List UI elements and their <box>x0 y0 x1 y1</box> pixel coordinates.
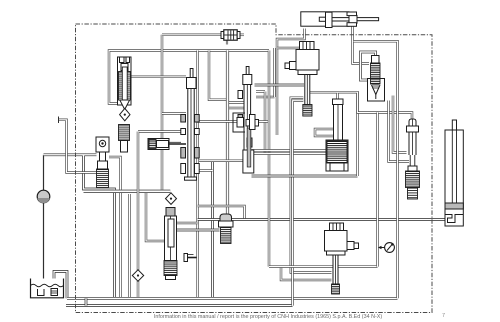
wire v393 drop <box>393 96 407 153</box>
wire bus branch v135 <box>128 194 131 298</box>
wire spool1 head drop <box>209 51 228 100</box>
wire relief-valve supply loop <box>109 51 269 104</box>
pilot relief valve RV1 <box>118 57 132 110</box>
damper spring element <box>119 125 130 153</box>
check diamond D1 <box>120 108 130 120</box>
svg-text:7: 7 <box>442 313 445 319</box>
cartridge valve CART2 <box>406 155 420 199</box>
wire long vertical x198 <box>196 51 199 299</box>
solenoid valve SOL1 <box>285 42 319 117</box>
wire accumulator line <box>43 155 45 190</box>
wire gauge branch <box>376 113 379 267</box>
wire v274 drop <box>273 48 276 97</box>
pilot accumulator tube <box>407 119 419 155</box>
oil reservoir tank <box>31 279 64 298</box>
wire below diamond <box>137 281 140 299</box>
wire cross to v269 <box>259 120 270 123</box>
wire main pressure line <box>198 218 445 221</box>
wire to fill coupler <box>162 34 221 37</box>
wire tank pickup <box>54 272 67 299</box>
wire bus2 riser to sol1 <box>293 101 304 306</box>
wire cyl rod port <box>353 25 370 64</box>
relief valve RV2 <box>368 56 385 102</box>
wire coupler right stub <box>240 34 244 37</box>
wire rv2 top loop <box>361 52 376 80</box>
wire spool2 to cartridge <box>252 149 327 152</box>
secondary spool valve S2 <box>238 67 254 174</box>
solenoid valve SOL2 <box>325 223 359 294</box>
main spool valve S1 <box>181 69 199 181</box>
fill coupler <box>221 30 240 45</box>
lift cylinder <box>445 120 463 226</box>
wire long y176 line <box>252 175 358 178</box>
wire vertical pilot drop <box>211 161 214 299</box>
wire s2 head link bot <box>228 107 245 110</box>
wire return bus 2 <box>66 304 293 307</box>
wire relief outlet <box>131 76 186 79</box>
main control valve MV <box>164 208 177 280</box>
wire spool2 to cartridge B <box>252 152 327 155</box>
wire v290 drop <box>291 98 332 273</box>
center orifice block <box>233 113 259 132</box>
wire valve to check dome <box>176 229 220 232</box>
wire spool1 left stub B <box>138 130 186 133</box>
wire sol2 y266 line <box>269 265 378 268</box>
wire spool1 right stub <box>199 159 243 162</box>
wire s2 head link top <box>228 101 245 104</box>
wire gauge-ball header <box>44 153 97 156</box>
wire right return riser <box>354 41 398 298</box>
wire top cyl left port <box>277 29 305 136</box>
wire sol1 top feed <box>277 48 306 50</box>
ball check valve LV <box>96 137 109 188</box>
float ball <box>37 190 50 203</box>
wire spool1 left stub A <box>162 112 186 115</box>
wire rv2 to cart2 <box>389 101 410 162</box>
wire cart1 left loop <box>315 129 334 136</box>
wire spool2 stub 97 <box>256 96 275 99</box>
wire spool2 stub 91 <box>256 90 265 93</box>
wire sol2 lower feed <box>281 267 332 280</box>
wire bus1-bus2 link <box>85 298 88 305</box>
wire valve outlet step <box>176 222 198 225</box>
wire bus branch to check diamond <box>137 132 140 271</box>
wire valve right drop <box>109 157 121 298</box>
wire plugged stub <box>59 120 97 173</box>
wire main gray bus <box>84 190 171 193</box>
manual plunger <box>184 254 197 262</box>
cartridge valve CART1 <box>326 99 348 171</box>
wire bus to main valve <box>146 193 166 241</box>
wire accumulator to tank <box>43 203 45 290</box>
svg-text:Information in this manual / r: Information in this manual / report is t… <box>154 314 383 320</box>
wire vertical black pair center <box>226 51 229 214</box>
wire v269 drop <box>268 51 271 267</box>
damper actuator <box>148 139 186 150</box>
wire v357 drop <box>356 92 359 176</box>
wire v265 long <box>264 92 267 154</box>
inlet diamond D3 <box>166 193 177 205</box>
pressure gauge <box>378 243 394 253</box>
suction strainer 1 <box>38 289 45 296</box>
check diamond D2 <box>132 270 143 281</box>
master cylinder assembly top <box>301 12 379 28</box>
dashed system boundary <box>76 24 433 313</box>
wire sol1 to cart1 <box>310 92 338 99</box>
wire long vertical from border top <box>161 35 164 193</box>
suction strainer 2 <box>51 289 58 296</box>
wire stub tick <box>58 117 60 124</box>
wire spool1 right stub C <box>199 169 213 172</box>
wire riser to gray bus <box>198 206 245 220</box>
wire return bus 1 <box>67 297 398 300</box>
wire spool crossover <box>197 120 243 123</box>
wire sol1 branch to tube <box>338 92 413 119</box>
spring check valve dome <box>219 214 234 244</box>
wire valve drain left box <box>84 156 115 299</box>
wire sol1 black feed <box>255 84 305 87</box>
